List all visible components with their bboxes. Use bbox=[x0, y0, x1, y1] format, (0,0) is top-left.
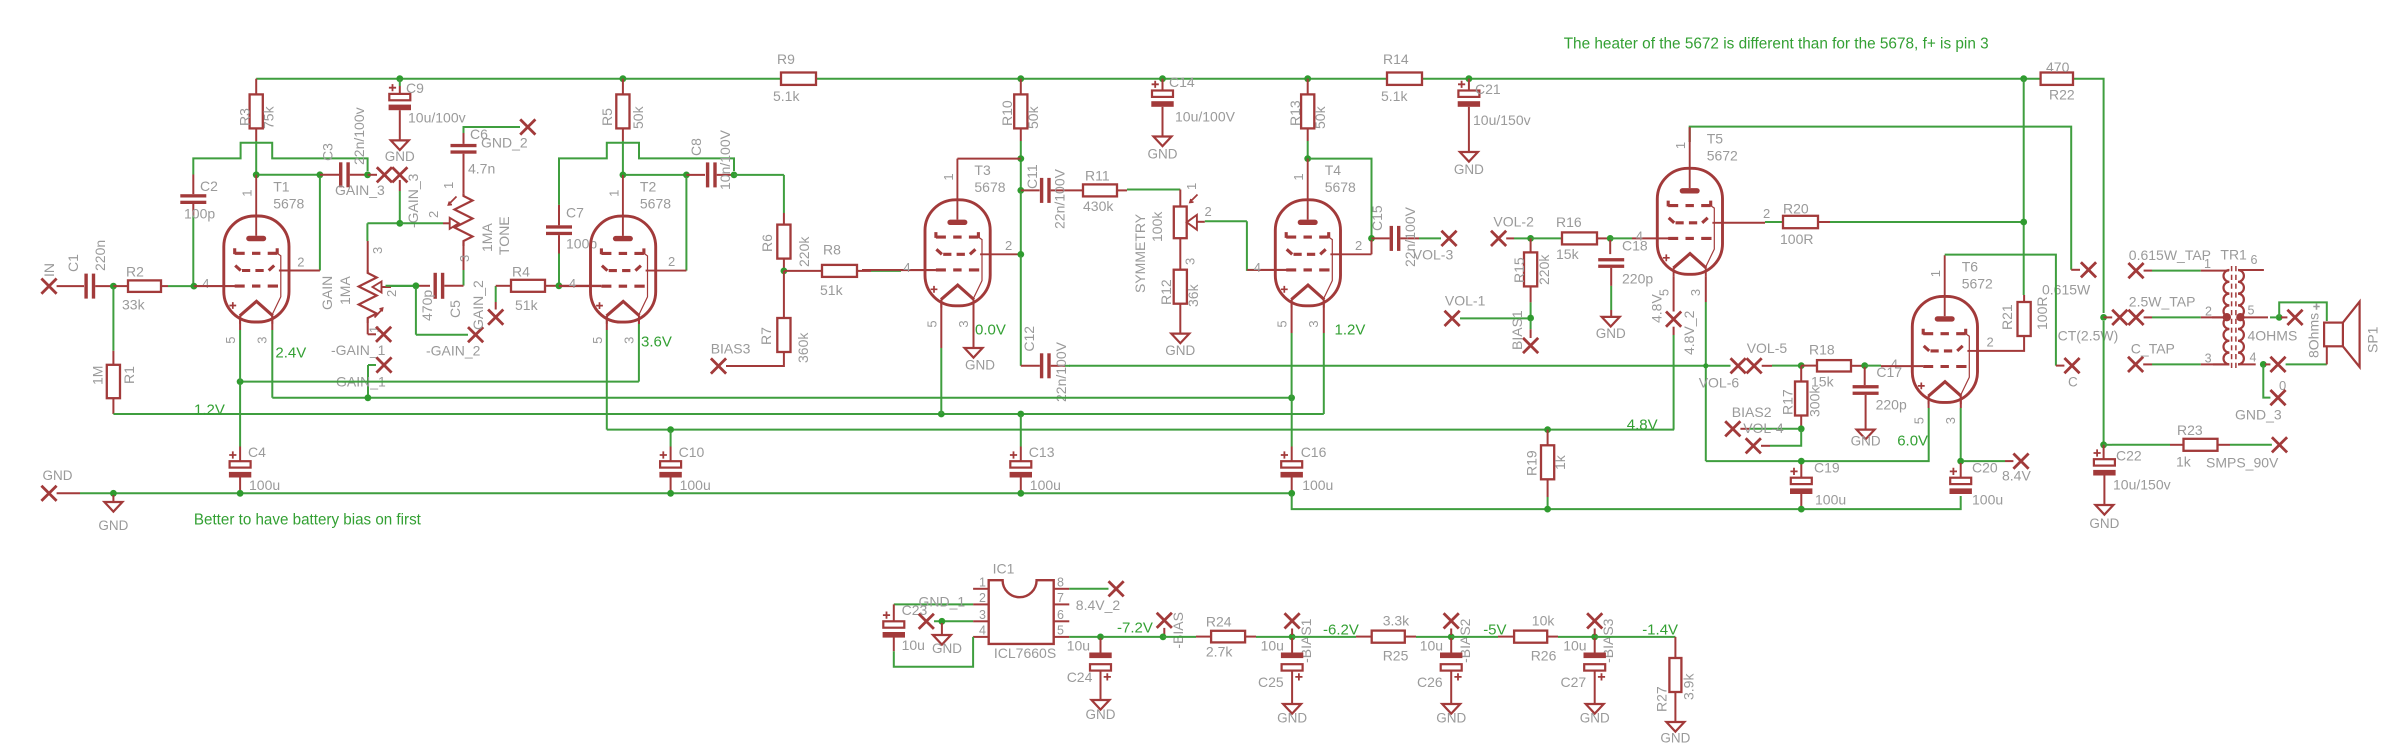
net flag pin8 bbox=[1069, 581, 1123, 596]
transformer TR1 bbox=[2204, 247, 2268, 369]
capacitor C5 bbox=[386, 273, 464, 321]
svg-text:7: 7 bbox=[1057, 591, 1064, 605]
resistor R2 bbox=[113, 264, 191, 313]
capacitor C27 bbox=[1561, 637, 1610, 725]
capacitor C11 bbox=[1024, 164, 1083, 229]
capacitor C19 bbox=[1790, 460, 1846, 510]
vacuum tube T5 bbox=[1636, 127, 1771, 296]
svg-text:10n/100V: 10n/100V bbox=[717, 129, 733, 190]
capacitor C26 bbox=[1417, 637, 1466, 725]
node TONE wiper junction bbox=[396, 220, 443, 227]
resistor R19 bbox=[1524, 430, 1568, 507]
svg-text:6.0V: 6.0V bbox=[1897, 433, 1928, 450]
svg-text:3: 3 bbox=[1183, 258, 1198, 265]
node 2.5W tap junction bbox=[2100, 314, 2112, 321]
svg-text:C9: C9 bbox=[406, 80, 424, 96]
node VOL-1 junction bbox=[1460, 315, 1534, 322]
net flag -GAIN_2 bbox=[416, 327, 483, 358]
svg-text:1k: 1k bbox=[2176, 453, 2192, 469]
wire supply to R21 bbox=[2023, 79, 2025, 302]
wire VOL bus from C12 bbox=[1069, 363, 1731, 368]
svg-text:R11: R11 bbox=[1085, 168, 1110, 184]
svg-text:R1: R1 bbox=[121, 366, 137, 384]
ground C22 bbox=[2089, 505, 2119, 531]
svg-text:GND: GND bbox=[1596, 326, 1626, 341]
svg-text:1: 1 bbox=[1673, 142, 1688, 149]
svg-text:R25: R25 bbox=[1383, 648, 1409, 664]
svg-text:C11: C11 bbox=[1024, 164, 1040, 189]
svg-text:VOL-6: VOL-6 bbox=[1699, 374, 1740, 390]
svg-text:0.615W_TAP: 0.615W_TAP bbox=[2129, 247, 2211, 263]
svg-text:R3: R3 bbox=[237, 108, 253, 126]
ground T3 cathode bbox=[965, 300, 996, 373]
capacitor C25 bbox=[1258, 637, 1307, 725]
capacitor C20 bbox=[1950, 460, 2004, 508]
svg-text:8: 8 bbox=[1057, 575, 1064, 589]
net flag -BIAS3 bbox=[1587, 613, 1616, 663]
svg-text:VOL-4: VOL-4 bbox=[1743, 420, 1784, 436]
svg-text:10u/150v: 10u/150v bbox=[1473, 112, 1531, 128]
resistor R6 bbox=[759, 175, 812, 271]
node C15 junction bbox=[1368, 235, 1390, 254]
node R15 R16 junction bbox=[1527, 235, 1534, 242]
svg-text:2: 2 bbox=[1005, 238, 1012, 253]
svg-text:5: 5 bbox=[2248, 304, 2255, 318]
wire C19 top line bbox=[1706, 430, 1929, 461]
node bus C C13 tap bbox=[1017, 411, 1024, 418]
net flag 4OHMS bbox=[2248, 310, 2303, 344]
svg-text:6: 6 bbox=[1057, 608, 1064, 622]
text 4.8V label T5 pin5 bbox=[1649, 294, 1665, 323]
svg-text:4: 4 bbox=[569, 276, 576, 291]
svg-text:5678: 5678 bbox=[974, 179, 1005, 195]
capacitor C24 bbox=[1067, 637, 1112, 700]
svg-text:100R: 100R bbox=[1780, 231, 1813, 247]
resistor R25 bbox=[1292, 612, 1448, 663]
svg-text:36k: 36k bbox=[1185, 283, 1201, 307]
svg-text:360k: 360k bbox=[795, 332, 811, 363]
svg-text:1M: 1M bbox=[90, 366, 106, 385]
svg-text:2: 2 bbox=[1987, 334, 1994, 349]
svg-text:100R: 100R bbox=[2034, 297, 2050, 330]
svg-text:GND: GND bbox=[1277, 711, 1307, 726]
capacitor C13 bbox=[1010, 415, 1061, 493]
svg-text:470: 470 bbox=[2046, 59, 2070, 75]
capacitor C3 bbox=[320, 107, 368, 187]
svg-text:4: 4 bbox=[1636, 228, 1643, 243]
svg-text:5: 5 bbox=[1912, 417, 1927, 424]
svg-text:GAIN: GAIN bbox=[319, 276, 335, 310]
wire bias rail bbox=[1069, 636, 1098, 638]
resistor R12 bbox=[1158, 270, 1201, 334]
svg-text:C24: C24 bbox=[1067, 669, 1093, 685]
svg-text:3: 3 bbox=[1688, 289, 1703, 296]
svg-text:5: 5 bbox=[223, 337, 238, 344]
svg-text:GND: GND bbox=[43, 468, 73, 483]
node C13 gnd junction bbox=[1017, 490, 1024, 497]
text 4.8V bus bbox=[1627, 416, 1658, 433]
svg-text:1: 1 bbox=[606, 190, 621, 197]
svg-text:51k: 51k bbox=[515, 297, 539, 313]
svg-text:C4: C4 bbox=[248, 444, 266, 460]
ground C9 bbox=[385, 140, 415, 164]
svg-text:R2: R2 bbox=[126, 264, 144, 280]
potentiometer TONE 1MA bbox=[426, 182, 512, 286]
svg-text:8Ohms: 8Ohms bbox=[2306, 313, 2322, 358]
svg-text:1k: 1k bbox=[1552, 454, 1568, 470]
net flag GAIN_1 bbox=[336, 357, 392, 397]
net flag VOL-6 bbox=[1699, 358, 1746, 390]
svg-text:Better to have battery bias on: Better to have battery bias on first bbox=[194, 512, 422, 529]
ground R27 bbox=[1660, 722, 1690, 746]
svg-text:GND: GND bbox=[965, 358, 995, 373]
net flag SMPS_90V bbox=[2206, 437, 2287, 470]
svg-text:R8: R8 bbox=[823, 242, 841, 258]
node T3 pin1 node bbox=[957, 155, 1024, 162]
svg-text:5672: 5672 bbox=[1707, 148, 1738, 164]
svg-text:2: 2 bbox=[2205, 305, 2212, 319]
node T2 pin4 junction bbox=[556, 282, 602, 289]
svg-text:0.615W: 0.615W bbox=[2042, 282, 2091, 298]
svg-text:C27: C27 bbox=[1561, 674, 1587, 690]
svg-text:R15: R15 bbox=[1511, 257, 1527, 283]
wire heater bus D 4.8V bbox=[607, 429, 1674, 431]
svg-text:100u: 100u bbox=[1302, 477, 1333, 493]
resistor R14 bbox=[1381, 51, 1422, 104]
svg-text:GND: GND bbox=[98, 518, 128, 533]
node C5 wiper junction bbox=[413, 282, 420, 334]
svg-text:1: 1 bbox=[1291, 173, 1306, 180]
node -BIAS3 junction bbox=[1591, 634, 1598, 641]
svg-text:1: 1 bbox=[941, 173, 956, 180]
wire T6 pin3 lead bbox=[1960, 396, 1962, 459]
node pin3 gnd junction bbox=[939, 618, 946, 635]
svg-text:GND: GND bbox=[1148, 147, 1178, 162]
resistor R22 bbox=[2041, 59, 2075, 103]
svg-text:8.4V: 8.4V bbox=[2002, 468, 2031, 484]
svg-text:22n/100V: 22n/100V bbox=[1052, 168, 1068, 229]
svg-text:C: C bbox=[2068, 375, 2078, 390]
resistor R4 bbox=[496, 264, 559, 314]
resistor R18 bbox=[1809, 341, 1862, 389]
net flag 0.615W_TAP bbox=[2128, 247, 2228, 278]
resistor R17 bbox=[1780, 366, 1823, 429]
svg-text:5.1k: 5.1k bbox=[773, 88, 800, 104]
text heater note bbox=[1564, 36, 1989, 53]
svg-text:5: 5 bbox=[1057, 623, 1064, 637]
net flag GND_3 bbox=[2235, 390, 2286, 423]
svg-text:22n/100v: 22n/100v bbox=[351, 107, 367, 165]
svg-text:GND_2: GND_2 bbox=[481, 135, 528, 151]
svg-text:GND: GND bbox=[1454, 162, 1484, 177]
svg-text:10u: 10u bbox=[1563, 637, 1586, 653]
svg-text:6: 6 bbox=[2251, 253, 2258, 267]
svg-text:VOL-2: VOL-2 bbox=[1493, 214, 1534, 230]
svg-text:-GAIN_2: -GAIN_2 bbox=[426, 342, 481, 358]
net flag -GAIN_1 bbox=[331, 327, 391, 358]
svg-text:3.9k: 3.9k bbox=[1681, 673, 1697, 700]
node C17 junction bbox=[1861, 362, 1923, 369]
capacitor C2 bbox=[180, 175, 218, 287]
resistor R13 bbox=[1287, 79, 1328, 159]
svg-text:C10: C10 bbox=[679, 444, 705, 460]
capacitor C21 bbox=[1458, 79, 1531, 152]
svg-text:4.8V: 4.8V bbox=[1627, 416, 1658, 433]
node T3 pin2 junction bbox=[1017, 251, 1024, 361]
svg-text:10u: 10u bbox=[1420, 637, 1443, 653]
net flag GND_2 bbox=[481, 119, 535, 150]
ground C17 bbox=[1851, 430, 1881, 449]
node bus B GAIN_1 tap bbox=[365, 394, 372, 401]
wire T1 pin5 lead bbox=[239, 316, 241, 382]
svg-text:IN: IN bbox=[41, 263, 57, 277]
svg-text:5678: 5678 bbox=[1325, 179, 1356, 195]
svg-text:GAIN_2: GAIN_2 bbox=[470, 280, 486, 330]
svg-text:220n: 220n bbox=[92, 240, 108, 271]
svg-text:3: 3 bbox=[1306, 320, 1321, 327]
node C10 gnd junction bbox=[667, 490, 674, 497]
node junction dots on top rail bbox=[396, 75, 2027, 82]
net flag 8.4V bbox=[2002, 454, 2031, 484]
svg-text:51k: 51k bbox=[820, 282, 844, 298]
svg-text:SP1: SP1 bbox=[2365, 326, 2381, 353]
net flag IN bbox=[41, 263, 84, 294]
svg-text:2: 2 bbox=[1763, 206, 1770, 221]
svg-text:R4: R4 bbox=[512, 264, 530, 280]
svg-text:1.2V: 1.2V bbox=[194, 402, 225, 419]
wire heater bus C 1.2V bbox=[113, 300, 1323, 414]
resistor R23 bbox=[2112, 422, 2272, 469]
resistor R20 bbox=[1723, 201, 2021, 248]
text battery bias note bbox=[194, 512, 422, 529]
wire ground rail bbox=[80, 492, 1292, 494]
text 3.6V bbox=[641, 334, 672, 351]
svg-text:4.8V: 4.8V bbox=[1649, 294, 1665, 323]
node R6 R7 R8 junction bbox=[781, 268, 788, 275]
svg-text:R16: R16 bbox=[1556, 214, 1582, 230]
svg-text:10u/100V: 10u/100V bbox=[1175, 109, 1236, 125]
svg-text:T5: T5 bbox=[1707, 131, 1724, 147]
svg-text:50k: 50k bbox=[1312, 105, 1328, 129]
node bus D R19 tap bbox=[1544, 426, 1551, 433]
capacitor C9 bbox=[389, 79, 466, 141]
svg-text:GND: GND bbox=[385, 149, 415, 164]
text -5V bbox=[1483, 622, 1506, 639]
svg-text:100u: 100u bbox=[249, 477, 280, 493]
svg-text:4.8V_2: 4.8V_2 bbox=[1681, 310, 1697, 355]
svg-text:3.6V: 3.6V bbox=[641, 334, 672, 351]
svg-text:TR1: TR1 bbox=[2220, 247, 2247, 263]
wire to GND_3 bbox=[2263, 366, 2270, 398]
potentiometer SYMMETRY 100k bbox=[1132, 183, 1247, 293]
text 2.4V bbox=[275, 345, 306, 362]
svg-text:3: 3 bbox=[956, 320, 971, 327]
capacitor C6 bbox=[451, 126, 521, 193]
wire T1 grid hat bbox=[193, 143, 367, 175]
resistor R9 bbox=[773, 51, 816, 104]
text 0.0V bbox=[975, 322, 1006, 339]
svg-text:50k: 50k bbox=[1025, 105, 1041, 129]
capacitor C10 bbox=[659, 431, 710, 493]
svg-text:R23: R23 bbox=[2177, 422, 2203, 438]
svg-text:C15: C15 bbox=[1369, 205, 1385, 231]
svg-text:R13: R13 bbox=[1287, 100, 1303, 126]
svg-text:220k: 220k bbox=[1536, 254, 1552, 285]
node -BIAS1 junction bbox=[1289, 634, 1296, 641]
wire speaker plus bbox=[2279, 302, 2327, 321]
svg-text:IC1: IC1 bbox=[993, 561, 1015, 577]
svg-text:C19: C19 bbox=[1814, 460, 1840, 476]
text -1.4V bbox=[1642, 622, 1678, 639]
wire rail to C22 node bbox=[2103, 321, 2105, 442]
svg-text:4: 4 bbox=[903, 260, 910, 275]
svg-text:2: 2 bbox=[1205, 204, 1212, 219]
svg-text:C2: C2 bbox=[200, 178, 218, 194]
wire heater bus B bbox=[272, 316, 1291, 398]
node bus B end junction bbox=[1288, 394, 1295, 401]
svg-text:220p: 220p bbox=[1876, 397, 1907, 413]
capacitor C12 bbox=[1021, 326, 1070, 402]
svg-text:R24: R24 bbox=[1206, 614, 1232, 630]
svg-text:R12: R12 bbox=[1158, 279, 1174, 305]
capacitor C17 bbox=[1853, 364, 1907, 430]
svg-text:100u: 100u bbox=[1972, 491, 2003, 507]
svg-text:BIAS1: BIAS1 bbox=[1509, 310, 1525, 350]
svg-text:The heater of the 5672 is diff: The heater of the 5672 is different than… bbox=[1564, 36, 1989, 53]
svg-text:3: 3 bbox=[457, 255, 472, 262]
text GND_1 bbox=[919, 594, 966, 610]
svg-text:C14: C14 bbox=[1169, 74, 1195, 90]
net flag 4.8V bbox=[1666, 276, 1681, 430]
node C16 gnd junction bbox=[1288, 490, 1960, 509]
net flag -BIAS2 bbox=[1444, 613, 1473, 663]
node T2 pin1 junction bbox=[620, 172, 685, 179]
node bus A C4 tap bbox=[237, 378, 244, 385]
node R19 gnd junction bbox=[1544, 506, 1551, 513]
svg-text:C12: C12 bbox=[1021, 326, 1037, 352]
speaker SP1 bbox=[2306, 302, 2381, 367]
capacitor C7 bbox=[546, 205, 597, 286]
resistor R24 bbox=[1163, 614, 1289, 660]
svg-text:1MA: 1MA bbox=[479, 223, 495, 252]
node C11 junction bbox=[1017, 187, 1039, 254]
net flag GAIN_2 bbox=[470, 280, 503, 330]
svg-text:R20: R20 bbox=[1783, 201, 1809, 217]
svg-text:4: 4 bbox=[202, 276, 209, 291]
node T1 pin2 node bbox=[317, 171, 340, 270]
net flag -GAIN_3 bbox=[392, 167, 421, 228]
resistor R1 bbox=[90, 288, 138, 414]
svg-text:1.2V: 1.2V bbox=[1335, 322, 1366, 339]
node T1 pin4 junction bbox=[191, 283, 236, 290]
node speaker plus junction bbox=[2270, 314, 2287, 321]
svg-text:GND: GND bbox=[1165, 343, 1195, 358]
vacuum tube T3 bbox=[862, 159, 1021, 328]
svg-text:4: 4 bbox=[1254, 260, 1261, 275]
svg-text:10u/150v: 10u/150v bbox=[2113, 477, 2171, 493]
svg-text:R14: R14 bbox=[1383, 51, 1409, 67]
resistor R15 bbox=[1511, 238, 1552, 316]
svg-text:C1: C1 bbox=[65, 254, 81, 272]
svg-text:R7: R7 bbox=[758, 327, 774, 345]
svg-text:GND: GND bbox=[1086, 707, 1116, 722]
svg-text:2: 2 bbox=[384, 290, 399, 297]
svg-text:R5: R5 bbox=[599, 108, 615, 126]
ground rail symbol bbox=[98, 502, 128, 533]
net flag C_TAP bbox=[2128, 341, 2229, 372]
node C19 gnd junction bbox=[1798, 506, 1805, 513]
svg-text:3: 3 bbox=[370, 247, 385, 254]
node input junction bbox=[110, 283, 117, 290]
svg-text:2.5W_TAP: 2.5W_TAP bbox=[2129, 294, 2196, 310]
net flag VOL-3 bbox=[1413, 231, 1457, 263]
net flag BIAS3 bbox=[711, 340, 751, 373]
node R17 top junction bbox=[1798, 362, 1817, 369]
ground C18 bbox=[1596, 317, 1626, 341]
svg-text:C20: C20 bbox=[1972, 460, 1998, 476]
node C24 junction bbox=[1097, 634, 1160, 641]
svg-text:R18: R18 bbox=[1809, 341, 1835, 357]
net flag VOL-1 bbox=[1445, 293, 1486, 326]
svg-text:3: 3 bbox=[621, 337, 636, 344]
net flag VOL-5 bbox=[1747, 340, 1800, 374]
svg-text:100p: 100p bbox=[184, 206, 215, 222]
svg-text:430k: 430k bbox=[1083, 198, 1114, 214]
svg-text:R26: R26 bbox=[1531, 648, 1557, 664]
wire T2 grid hat bbox=[559, 143, 734, 205]
svg-text:R17: R17 bbox=[1780, 389, 1796, 415]
node C8 left junction bbox=[683, 172, 705, 271]
svg-text:T3: T3 bbox=[974, 162, 991, 178]
ground IC pin3 bbox=[932, 635, 962, 656]
resistor R8 bbox=[784, 242, 936, 299]
svg-text:-7.2V: -7.2V bbox=[1117, 620, 1153, 637]
net flag CT(2.5W) bbox=[2058, 310, 2229, 344]
svg-text:5678: 5678 bbox=[273, 195, 304, 211]
svg-text:GAIN_3: GAIN_3 bbox=[335, 182, 385, 198]
svg-text:C22: C22 bbox=[2116, 448, 2142, 464]
svg-text:5678: 5678 bbox=[640, 195, 671, 211]
svg-text:-GAIN_3: -GAIN_3 bbox=[405, 173, 421, 228]
svg-text:4.7n: 4.7n bbox=[468, 161, 495, 177]
net flag 0.615W bbox=[2042, 262, 2096, 297]
net flag 0 on speaker minus bbox=[2265, 357, 2327, 393]
svg-text:10k: 10k bbox=[1532, 612, 1556, 628]
svg-text:C16: C16 bbox=[1301, 444, 1327, 460]
svg-text:220k: 220k bbox=[796, 236, 812, 267]
svg-text:BIAS2: BIAS2 bbox=[1732, 404, 1772, 420]
node bus D C10 tap bbox=[667, 426, 674, 433]
node C8 right junction bbox=[731, 172, 784, 179]
vacuum tube T4 bbox=[1247, 159, 1372, 328]
text 8.4V_2 bbox=[1076, 597, 1121, 613]
node C20 top junction bbox=[1957, 458, 2013, 465]
potentiometer GAIN 1MA bbox=[319, 241, 414, 334]
svg-text:GND: GND bbox=[932, 641, 962, 656]
svg-text:10u/100v: 10u/100v bbox=[408, 110, 466, 126]
node C3 output junction bbox=[364, 171, 377, 178]
text 1.2V bus bbox=[194, 402, 225, 419]
svg-text:R22: R22 bbox=[2049, 87, 2075, 103]
resistor R5 bbox=[599, 79, 646, 175]
svg-text:300k: 300k bbox=[1807, 386, 1823, 417]
wire T6 plate to C bbox=[1945, 255, 2065, 366]
svg-text:2: 2 bbox=[1355, 238, 1362, 253]
net flag VOL-4 bbox=[1725, 420, 1784, 436]
svg-text:C13: C13 bbox=[1029, 444, 1055, 460]
svg-text:1: 1 bbox=[441, 182, 456, 189]
node GND symbol junction bbox=[110, 490, 117, 502]
